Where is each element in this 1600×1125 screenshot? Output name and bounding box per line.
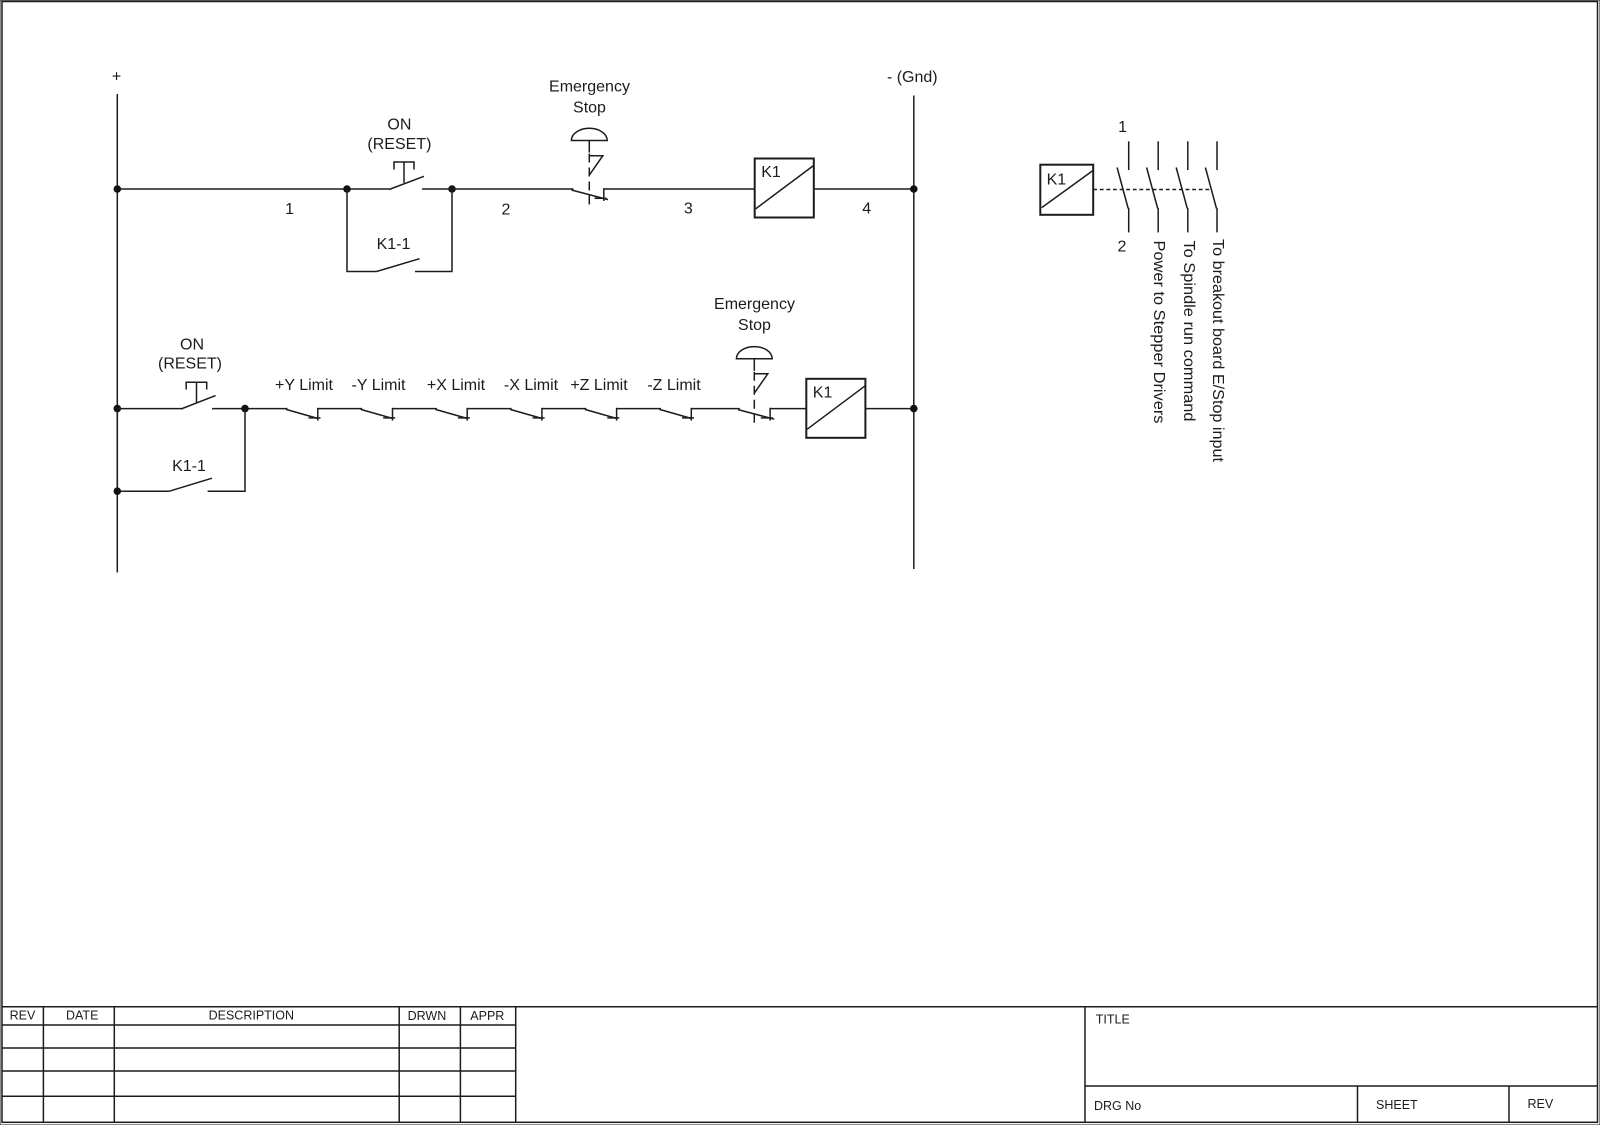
svg-text:+Z Limit: +Z Limit	[570, 377, 628, 394]
relay contact 1	[1117, 141, 1129, 232]
wire rung2 seg f	[691, 408, 740, 410]
relay contact 4	[1205, 141, 1217, 232]
svg-text:3: 3	[684, 201, 693, 218]
node junction rung2 after ON	[241, 405, 249, 413]
svg-text:TITLE: TITLE	[1096, 1013, 1130, 1027]
svg-text:Power to Stepper Drivers: Power to Stepper Drivers	[1150, 241, 1167, 424]
svg-text:(RESET): (RESET)	[158, 356, 222, 373]
wire rung 2 after ON	[212, 408, 288, 410]
svg-text:2: 2	[1118, 239, 1127, 256]
svg-text:-Z Limit: -Z Limit	[647, 377, 701, 394]
svg-text:DATE: DATE	[66, 1009, 98, 1023]
wire rung 2 coil to right bus	[865, 408, 913, 410]
emergency stop rung1 mushroom head	[571, 128, 607, 140]
relay contact 2	[1147, 141, 1159, 232]
wire rung 1 left segment	[117, 188, 389, 190]
title block divider	[1084, 1007, 1086, 1123]
svg-text:SHEET: SHEET	[1376, 1098, 1418, 1112]
wire rung 1 middle segment	[422, 188, 574, 190]
svg-text:REV: REV	[10, 1009, 36, 1023]
svg-text:Stop: Stop	[573, 100, 606, 117]
emergency stop rung2 stem	[753, 359, 755, 371]
node junction rung1 before ON	[343, 185, 351, 193]
emergency stop rung2 flag	[754, 374, 768, 393]
relay K1 contact block box	[1040, 165, 1093, 215]
svg-text:+Y Limit: +Y Limit	[275, 377, 334, 394]
title block row lines	[2, 1025, 516, 1096]
limit switch +Y NC contact	[286, 408, 321, 421]
svg-text:To Spindle run command: To Spindle run command	[1180, 241, 1197, 422]
emergency stop rung1 dashed actuator line	[588, 154, 590, 208]
svg-text:1: 1	[285, 201, 294, 218]
relay coil K1 rung2	[806, 379, 865, 438]
svg-text:Emergency: Emergency	[549, 79, 630, 96]
pushbutton ON (RESET) rung1 symbol	[389, 162, 424, 190]
svg-text:-Y Limit: -Y Limit	[352, 377, 406, 394]
svg-text:ON: ON	[387, 117, 411, 134]
svg-text:+X Limit: +X Limit	[427, 377, 486, 394]
limit switch -X NC contact	[510, 408, 544, 421]
limit switch -Z NC contact	[660, 408, 695, 421]
svg-text:APPR: APPR	[470, 1009, 504, 1023]
svg-text:K1-1: K1-1	[172, 458, 206, 475]
limit switch -Y NC contact	[361, 408, 396, 421]
title block column lines	[43, 1007, 515, 1123]
svg-text:To breakout board E/Stop input: To breakout board E/Stop input	[1209, 239, 1226, 463]
svg-text:DESCRIPTION: DESCRIPTION	[209, 1009, 294, 1023]
svg-text:K1: K1	[1047, 172, 1067, 189]
node junction rung2 right bus	[910, 405, 918, 413]
svg-text:DRG No: DRG No	[1094, 1099, 1141, 1113]
emergency stop rung2 dashed actuator line	[753, 372, 755, 426]
node junction rung1 after ON	[448, 185, 456, 193]
svg-text:DRWN: DRWN	[408, 1009, 447, 1023]
limit switch +Z NC contact	[585, 408, 620, 421]
node junction rung2 left bus	[114, 405, 122, 413]
svg-text:K1: K1	[761, 164, 781, 181]
limit switch +X NC contact	[435, 408, 470, 421]
svg-text:K1: K1	[813, 384, 833, 401]
emergency stop rung2 mushroom head	[736, 347, 772, 359]
svg-text:1: 1	[1118, 119, 1127, 136]
wire rung 1 coil to right bus	[814, 188, 914, 190]
svg-text:-X Limit: -X Limit	[504, 377, 559, 394]
svg-text:Stop: Stop	[738, 317, 771, 334]
wire rung 2 to coil	[770, 408, 806, 410]
svg-text:2: 2	[502, 202, 511, 219]
title block rev divider	[1508, 1086, 1510, 1122]
wire right bus	[913, 96, 915, 570]
node junction rung1 left bus	[114, 185, 122, 193]
wire rung2 seg a	[318, 408, 362, 410]
svg-text:(RESET): (RESET)	[367, 136, 431, 153]
pushbutton ON (RESET) rung2 symbol	[181, 382, 216, 409]
relay coil K1 rung1	[755, 159, 814, 218]
svg-text:+: +	[112, 69, 121, 86]
node junction branch2 left bus	[114, 487, 122, 495]
emergency stop rung1 NC contact	[572, 188, 609, 201]
wire rung2 seg e	[617, 408, 661, 410]
title block DRG row line	[1085, 1085, 1598, 1087]
title block top line	[2, 1006, 1598, 1008]
wire rung 2 left segment	[117, 408, 181, 410]
relay contact 3	[1176, 141, 1188, 232]
emergency stop rung1 flag	[589, 156, 603, 175]
svg-text:REV: REV	[1528, 1097, 1554, 1111]
wire rung2 seg c	[467, 408, 511, 410]
svg-text:- (Gnd): - (Gnd)	[887, 69, 938, 86]
wire rung 1 to coil	[604, 188, 755, 190]
svg-text:Emergency: Emergency	[714, 296, 795, 313]
wire rung2 seg d	[542, 408, 586, 410]
svg-text:K1-1: K1-1	[377, 236, 411, 253]
wire rung2 seg b	[393, 408, 437, 410]
title block sheet divider	[1357, 1086, 1359, 1122]
emergency stop rung2 NC contact	[738, 408, 774, 421]
svg-text:ON: ON	[180, 337, 204, 354]
contact K1-1 parallel branch rung1	[347, 189, 452, 272]
svg-text:4: 4	[862, 201, 871, 218]
relay K1 dashed link	[1093, 189, 1210, 191]
node junction rung1 right bus	[910, 185, 918, 193]
emergency stop rung1 stem	[588, 141, 590, 153]
wire left bus	[116, 94, 118, 573]
contact K1-1 parallel branch rung2	[117, 409, 245, 492]
